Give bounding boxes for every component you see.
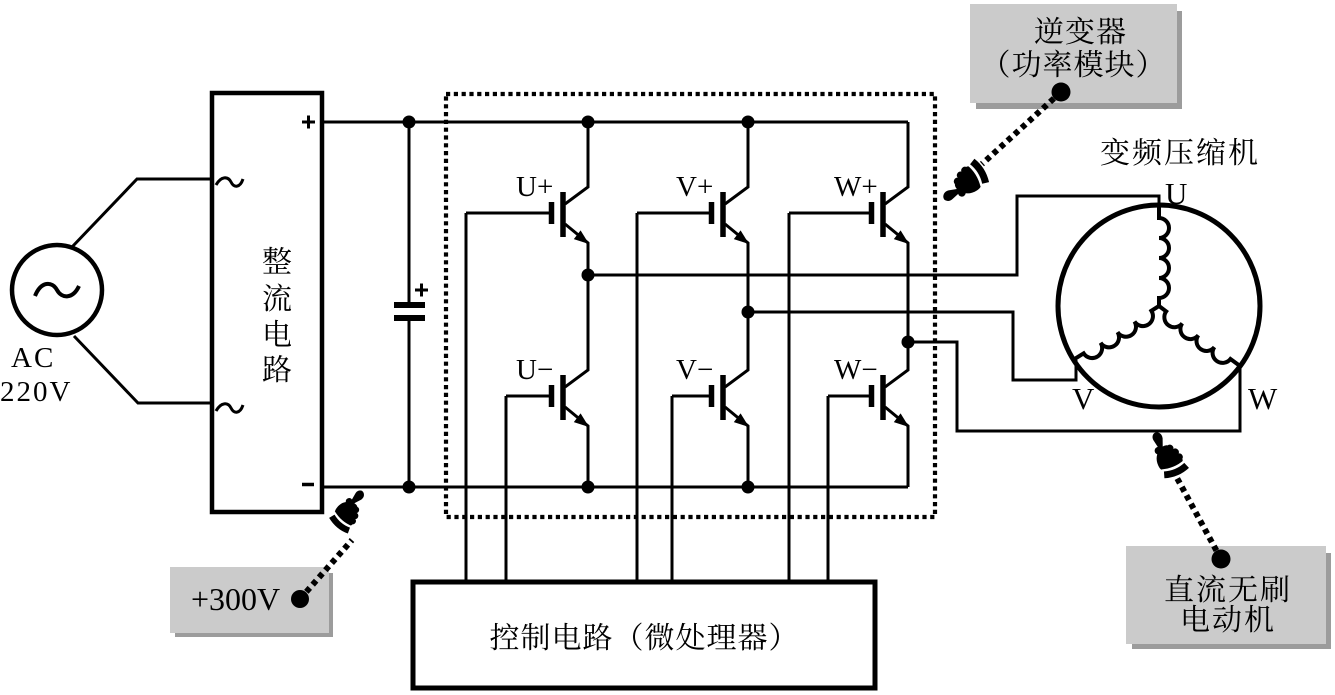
transistor U+ <box>466 122 589 275</box>
wire W+ gate riser <box>788 213 791 582</box>
leader dotted line to bottom bus <box>300 540 352 599</box>
leader dot <box>1212 550 1231 569</box>
rectifier label 整流电路 <box>263 247 291 383</box>
rectifier + terminal label <box>302 116 315 129</box>
AC source circle <box>12 245 102 335</box>
svg-text:W: W <box>1248 381 1278 416</box>
transistor W+ <box>789 122 909 342</box>
control circuit box <box>413 582 875 688</box>
title 变频压缩机 <box>1101 138 1257 166</box>
svg-text:V−: V− <box>676 354 713 386</box>
transistor U- <box>506 275 589 487</box>
node V- emitter on bottom bus <box>742 481 755 494</box>
rectifier ~ input bottom <box>216 404 243 412</box>
svg-text:U−: U− <box>516 354 553 386</box>
node U+ collector on top bus <box>582 116 595 129</box>
callout box 逆变器（功率模块） <box>970 4 1177 103</box>
svg-text:+300V: +300V <box>191 581 280 617</box>
wire U+ gate riser <box>465 213 468 582</box>
svg-text:AC: AC <box>11 342 55 374</box>
wire phase V output <box>748 312 1076 380</box>
inverter power module dotted box <box>446 94 935 517</box>
node U- emitter on bottom bus <box>582 481 595 494</box>
hand pointer at inverter box <box>936 160 989 210</box>
svg-text:W−: W− <box>834 354 878 386</box>
callout text 逆变器 <box>1035 17 1125 45</box>
leader dot <box>291 590 309 608</box>
svg-text:V: V <box>1072 381 1095 416</box>
hand pointer at motor wire <box>1144 426 1188 478</box>
node phase V <box>742 306 755 319</box>
transistor V+ <box>637 122 749 312</box>
control box label 控制电路（微处理器） <box>490 623 779 651</box>
callout box 直流无刷电动机 shadow <box>1132 553 1331 649</box>
svg-text:V+: V+ <box>676 171 713 203</box>
rectifier - terminal label <box>302 483 314 487</box>
transistor V- <box>672 312 749 487</box>
wire phase U output <box>588 196 1159 275</box>
wire AC to rectifier top <box>72 179 213 247</box>
callout box +300V <box>170 567 329 633</box>
hand pointer at bottom bus <box>329 485 372 532</box>
capacitor C1 <box>394 122 428 487</box>
leader dotted line to inverter box <box>982 92 1061 164</box>
transistor W- <box>828 342 909 487</box>
svg-text:U: U <box>1165 176 1187 211</box>
motor winding W <box>1159 306 1240 366</box>
wire phase W output <box>908 342 1240 431</box>
callout text 直流无刷 <box>1165 575 1288 603</box>
svg-text:U+: U+ <box>516 171 553 203</box>
wire W- gate riser <box>827 396 830 582</box>
node bottom bus / capacitor <box>403 481 416 494</box>
callout box 逆变器（功率模块） shadow <box>976 11 1182 109</box>
wire U- gate riser <box>505 396 508 582</box>
node phase W <box>902 336 915 349</box>
motor circle (compressor) <box>1058 205 1260 407</box>
wire V- gate riser <box>671 396 674 582</box>
wire V+ gate riser <box>636 213 639 582</box>
callout box +300V shadow <box>175 573 333 637</box>
callout text 电动机 <box>1184 605 1273 633</box>
rectifier box <box>212 93 322 512</box>
callout text （功率模块） <box>1000 50 1146 78</box>
motor winding U <box>1159 205 1169 306</box>
callout box 直流无刷电动机 <box>1126 546 1326 644</box>
AC 220V label <box>0 342 72 408</box>
svg-text:W+: W+ <box>834 171 878 203</box>
leader dot <box>1052 83 1071 102</box>
node V+ collector on top bus <box>742 116 755 129</box>
node phase U <box>582 269 595 282</box>
wire AC to rectifier bottom <box>74 336 213 403</box>
rectifier ~ input top <box>216 178 243 186</box>
wire negative bottom bus <box>322 486 908 489</box>
wire +300V top bus <box>322 121 908 124</box>
node top bus / capacitor <box>403 116 416 129</box>
leader dotted line to motor wire <box>1177 478 1221 559</box>
motor winding V <box>1073 306 1159 360</box>
svg-text:220V: 220V <box>0 376 72 408</box>
